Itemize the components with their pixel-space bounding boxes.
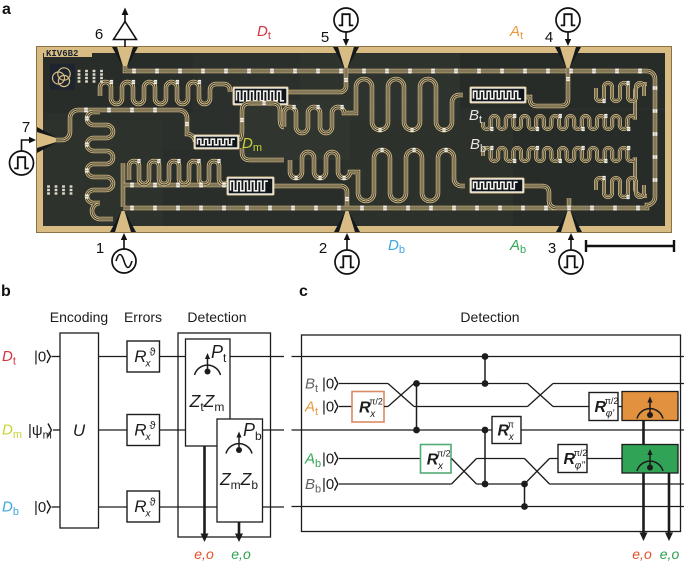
svg-text:7: 7	[22, 119, 30, 136]
svg-text:|0: |0	[322, 376, 334, 393]
gate Rx pi on D_m	[492, 417, 521, 444]
svg-text:b: b	[1, 283, 11, 300]
svg-text:2: 2	[319, 240, 327, 257]
arrow port 1	[121, 233, 127, 249]
resonator meander D_t top-left	[100, 82, 230, 104]
gate Rx theta on D_b	[127, 491, 160, 522]
pulse source port 5	[334, 8, 358, 32]
wire rail D_t	[292, 356, 685, 358]
svg-text:Ab: Ab	[509, 237, 526, 256]
svg-text:Ab: Ab	[304, 451, 321, 471]
wire capacitor C5 to bottom bus	[523, 186, 556, 208]
amplifier symbol port 6	[114, 8, 137, 48]
svg-text:c: c	[299, 283, 308, 300]
pulse source port 2	[335, 250, 359, 274]
ket |0> A_t	[322, 399, 338, 416]
svg-text:x: x	[144, 359, 151, 370]
svg-text:e,o: e,o	[632, 546, 652, 562]
gate Rx pi/2 on A_b (green)	[421, 445, 452, 474]
wire port 4 feed to capacitor C4	[525, 68, 568, 106]
svg-text:3: 3	[548, 240, 556, 257]
measurement output arrow P_b	[235, 522, 243, 542]
launcher pad port 6	[112, 47, 138, 68]
ket |0> B_b	[322, 476, 338, 493]
capacitor C2 readout D_m	[194, 135, 240, 150]
svg-text:4: 4	[545, 29, 553, 46]
svg-text:|0: |0	[322, 451, 334, 468]
svg-text:At: At	[304, 399, 318, 419]
svg-text:π/2: π/2	[437, 448, 451, 458]
test pads top-left	[78, 70, 103, 83]
test pads bottom-left	[47, 185, 72, 194]
wire A_t to gate	[339, 406, 352, 408]
resonator meander D_b bottom-left	[129, 161, 229, 184]
wire port 1 vertical feed	[121, 163, 126, 207]
wire A_b to gate	[339, 458, 421, 460]
svg-text:U: U	[73, 421, 86, 440]
resonator meander right column bottom	[596, 178, 644, 197]
wire rail D_b	[292, 506, 685, 508]
gate Rx pi/2 on A_t (orange)	[352, 392, 384, 423]
pulse source port 3	[559, 250, 583, 274]
CZ gate B_b-D_b	[521, 481, 528, 510]
ket |0> D_b	[34, 499, 50, 516]
arrow port 3	[568, 233, 574, 250]
wire A_t out	[553, 406, 589, 408]
svg-text:Errors: Errors	[124, 309, 162, 325]
svg-text:5: 5	[321, 29, 329, 46]
launcher pad port 7	[37, 127, 58, 153]
svg-text:π/2: π/2	[605, 396, 619, 406]
svg-text:ϑ: ϑ	[149, 420, 155, 432]
resonator meander right column top	[596, 83, 644, 101]
wire rail D_m	[292, 429, 685, 431]
wire B_t	[339, 383, 388, 385]
launcher pad port 5	[333, 47, 359, 68]
gate R phi prime on A_t	[589, 393, 618, 421]
parity detector Z_t Z_m with meter P_t	[186, 339, 231, 446]
svg-text:Db: Db	[388, 237, 405, 256]
ket |psi_m> D_m	[28, 422, 52, 442]
svg-text:At: At	[509, 23, 523, 42]
capacitor C3 readout D_b	[227, 177, 275, 196]
svg-text:e,o: e,o	[194, 546, 214, 562]
svg-text:Detection: Detection	[460, 309, 519, 325]
wire capacitor C2 to center meander	[239, 103, 284, 139]
arrow port 7	[22, 137, 37, 151]
wire B_b mid	[477, 483, 525, 485]
svg-text:Db: Db	[2, 499, 19, 519]
wire port 7 drive line to capacitor C2	[56, 110, 195, 142]
wire capacitor C2 down branch	[242, 148, 284, 160]
gate Rx theta on D_t	[127, 341, 160, 372]
resonator meander center top (A_t)	[284, 79, 463, 133]
wire A_t mid	[414, 406, 528, 408]
wire D_b	[52, 506, 285, 508]
wire port 2 feed from capacitor C3	[273, 186, 347, 206]
wire D_m	[53, 429, 284, 431]
svg-text:|0: |0	[322, 399, 334, 416]
ket |0> D_t	[34, 349, 50, 366]
wire main feedline bus (top, right, bottom edges)	[123, 66, 655, 208]
measurement output arrow P_t	[201, 446, 209, 542]
svg-text:x: x	[508, 432, 515, 443]
wire D_t	[52, 356, 285, 358]
svg-text:a: a	[2, 1, 11, 18]
launcher pad port 1	[110, 211, 136, 232]
sine source port 1	[112, 249, 136, 273]
gate U encoding	[60, 333, 99, 528]
svg-text:e,o: e,o	[660, 546, 680, 562]
svg-text:φʹ: φʹ	[606, 409, 616, 420]
wire A_b mid	[477, 458, 525, 460]
launcher pad port 4	[555, 47, 581, 68]
gate R phi doubleprime on A_b	[558, 445, 587, 473]
svg-text:KIV6B2: KIV6B2	[46, 49, 78, 59]
measurement box A_b (green)	[622, 445, 678, 474]
resonator meander B_t	[483, 84, 647, 129]
swap crossing B_t/A_t left	[384, 384, 414, 407]
svg-text:ϑ: ϑ	[149, 347, 155, 359]
svg-text:Dt: Dt	[257, 23, 271, 42]
launcher pad port 2	[334, 211, 360, 232]
CZ gate B_t-D_m	[413, 380, 420, 433]
svg-text:x: x	[437, 461, 444, 472]
CZ gate D_m-B_b	[482, 427, 489, 488]
capacitor C5 readout A_b	[470, 178, 525, 194]
wire port 1 bus to capacitor C3	[123, 183, 228, 188]
svg-text:x: x	[144, 432, 151, 443]
resonator meander center bottom (A_b)	[290, 150, 465, 201]
wire A_t to meter	[618, 406, 622, 408]
CZ gate D_t-B_t	[482, 353, 489, 387]
capacitor C1 readout D_t	[233, 87, 289, 106]
ket |0> A_b	[322, 451, 338, 468]
svg-text:6: 6	[95, 26, 103, 43]
chip substrate (panel a micrograph)	[36, 46, 672, 233]
arrow port 5	[343, 32, 349, 46]
svg-text:π: π	[508, 420, 514, 430]
wire B_t out	[553, 383, 684, 385]
svg-text:|0: |0	[322, 476, 334, 493]
svg-text:|0: |0	[34, 499, 46, 516]
svg-text:Bt: Bt	[305, 376, 318, 396]
svg-text:Dm: Dm	[2, 422, 22, 442]
svg-text:Encoding: Encoding	[50, 309, 108, 325]
svg-text:1: 1	[96, 240, 104, 257]
svg-text:ϑ: ϑ	[149, 497, 155, 509]
pulse source port 7	[10, 151, 34, 175]
arrow port 4	[565, 32, 571, 46]
chip surface tile shading	[43, 53, 665, 226]
wire port 5 feed to capacitor C1	[287, 68, 346, 92]
arrow port 2	[344, 233, 350, 250]
wire port 3 feed	[567, 198, 572, 206]
swap crossing A_b/B_b right	[525, 459, 550, 485]
pulse source port 4	[556, 8, 580, 32]
svg-text:x: x	[144, 509, 151, 520]
measurement box A_t (orange)	[622, 392, 678, 421]
svg-text:Dt: Dt	[2, 348, 16, 368]
svg-text:π/2: π/2	[369, 396, 383, 406]
svg-text:e,o: e,o	[231, 546, 251, 562]
svg-text:|0: |0	[34, 349, 46, 366]
swap crossing B_t/A_t right	[528, 384, 554, 407]
svg-text:Bb: Bb	[305, 476, 321, 496]
detection box outline (panel c)	[302, 335, 681, 532]
wire B_t mid	[414, 383, 528, 385]
svg-text:Detection: Detection	[187, 309, 246, 325]
wire B_b out	[550, 483, 685, 485]
resonator meander B_b	[483, 148, 647, 196]
svg-text:π/2: π/2	[574, 448, 588, 458]
wire A_b to meter	[587, 458, 622, 460]
measurement output arrow A_t	[640, 421, 648, 542]
chip logo	[50, 64, 75, 90]
measurement output arrow A_b	[665, 473, 673, 541]
detection box outline	[178, 333, 271, 537]
chip label KIV6B2	[44, 47, 92, 59]
gate Rx theta on D_m	[127, 415, 160, 446]
ket |0> B_t	[322, 376, 338, 393]
scale bar	[586, 240, 674, 252]
svg-text:x: x	[369, 409, 376, 420]
swap crossing A_b/B_b left	[452, 459, 477, 485]
svg-text:φʺ: φʺ	[575, 461, 586, 472]
parity detector Z_m Z_b with meter P_b	[217, 419, 263, 522]
launcher pad port 3	[556, 211, 582, 232]
wire B_b	[339, 483, 452, 485]
airbridges	[84, 69, 657, 211]
wire A_b out	[550, 458, 559, 460]
capacitor C4 readout A_t	[470, 87, 527, 104]
resonator meander left vertical (drive D_b)	[87, 112, 113, 219]
